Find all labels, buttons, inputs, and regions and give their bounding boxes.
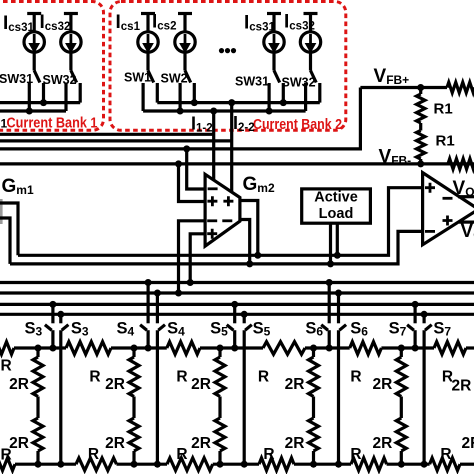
junction column 1 bottom chain: [35, 461, 42, 468]
bank2 bar A (right throws): [157, 101, 319, 104]
junction Gm2 in2 on V_FB- line: [175, 160, 182, 167]
switch SW2: [183, 52, 186, 70]
switch S5 right: [243, 314, 246, 323]
active load box: [302, 189, 371, 223]
junction active load right leg on rail 1: [334, 252, 341, 259]
wire top chain node 4: [305, 346, 350, 349]
wire SW32 (bank2) left throw: [304, 83, 307, 111]
wire SW32 (bank1) left throw: [64, 83, 67, 111]
svg-text:SW1: SW1: [124, 70, 151, 84]
current source Ics31 (bank2): [267, 12, 281, 15]
junction Gm2 in1 on V_FB+ line: [183, 145, 190, 152]
wire bus A: [0, 281, 474, 284]
junction Gm2 out+ on rail 1: [254, 252, 261, 259]
resistor R top chain 4-5: [350, 342, 382, 355]
wire top chain node 1: [14, 346, 66, 349]
wire SW31 (bank1) right throw: [42, 83, 45, 103]
current source Ics32 (bank1): [64, 12, 78, 15]
resistor R (V_FB+ to right edge): [447, 82, 474, 92]
junction bank1 SW31 left on bar B: [26, 108, 33, 115]
switch S4 left: [147, 283, 150, 324]
junction S7 left on top chain: [412, 345, 419, 352]
junction V_FB- / R1: [417, 160, 424, 167]
current source Ics32 (bank2): [304, 12, 318, 15]
svg-text:R: R: [176, 369, 187, 386]
wire V_OUT- output: [459, 221, 474, 224]
junction S7 left on bus: [412, 301, 419, 308]
resistor R (V_FB- to right edge): [448, 159, 474, 169]
switch S5 left: [233, 304, 236, 323]
wire Gm2 input 4 from bus A: [190, 234, 205, 283]
op-amp Gm1 (cut at edge): [0, 199, 3, 224]
junction active load left leg on rail 2: [327, 260, 334, 267]
wire I_2-2 from bank2 bar A down to Gm2 top: [230, 103, 233, 193]
svg-text:SW31: SW31: [235, 75, 269, 89]
wire Gm1 output 1 to rail 1: [0, 203, 18, 255]
resistor 2R column 2 lower: [129, 418, 139, 451]
switch SW32 (bank2): [309, 52, 312, 70]
Gm2 plus out+: [223, 196, 233, 206]
svg-text:SW2: SW2: [161, 71, 188, 85]
svg-text:R1: R1: [436, 133, 455, 150]
svg-text:R: R: [89, 369, 100, 386]
current source Ics2: [178, 12, 192, 15]
op-amp output buffer: [423, 173, 474, 245]
wire SW1 left throw: [142, 83, 145, 111]
wire SW31 (bank2) right throw: [282, 83, 285, 103]
junction S6 left on bus: [326, 279, 333, 286]
resistor 2R column 2 upper: [132, 348, 135, 357]
svg-text:2R: 2R: [285, 376, 305, 393]
wire bottom chain right end: [460, 463, 474, 466]
svg-text:R: R: [350, 369, 361, 386]
switch SW32 (bank1): [69, 52, 72, 70]
switch SW31 (bank2): [272, 52, 275, 70]
wire active load right leg to rail 1: [336, 223, 339, 255]
junction S7 right on bus: [421, 311, 428, 318]
wire bottom chain node 4: [294, 463, 351, 466]
junction column 5 top chain: [398, 345, 405, 352]
wire bus D: [0, 313, 474, 316]
wire bottom chain node 2: [117, 463, 168, 466]
svg-text:R: R: [176, 446, 187, 463]
resistor R bottom chain 2-3: [167, 458, 213, 471]
output amp minus in (bottom): [425, 230, 435, 233]
current bank 1 dashed box: [0, 2, 104, 131]
resistor 2R column 1 lower: [33, 418, 43, 451]
junction S5 left on top chain: [231, 345, 238, 352]
svg-text:R1: R1: [434, 101, 453, 118]
wire bottom chain node 3: [213, 463, 259, 466]
wire SW2 right throw: [193, 83, 196, 103]
Gm2 plus in2: [207, 196, 217, 206]
junction column 5 bottom chain: [398, 461, 405, 468]
wire SW31 (bank2) left throw: [268, 83, 271, 111]
resistor R bottom chain (cut at left edge): [0, 458, 15, 471]
wire bottom chain node 1: [15, 463, 76, 466]
bank2 bar B (left throws): [143, 109, 306, 112]
wire V_FB- line: [0, 162, 474, 165]
Gm2 minus in1: [208, 187, 218, 190]
wire SW31 (bank1) left throw: [28, 83, 31, 111]
svg-text:2R: 2R: [191, 376, 211, 393]
output amp plus in (top): [425, 183, 435, 193]
junction column 2 top chain: [131, 345, 138, 352]
current bank 2 dashed box: [110, 2, 346, 131]
current source Ics1: [141, 12, 155, 15]
wire SW32 (bank2) right throw: [318, 83, 321, 103]
svg-text:R: R: [258, 369, 269, 386]
resistor 2R column 3 upper: [218, 348, 221, 357]
junction bank2 SW31 left on bar B: [266, 108, 273, 115]
switch S6 left: [328, 283, 331, 324]
svg-text:VOUT-: VOUT-: [461, 221, 474, 242]
wire Gm2 input 3 from bus B: [179, 221, 206, 293]
resistor 2R column 3 lower: [215, 418, 225, 451]
junction SW2 left on bar B: [177, 108, 184, 115]
resistor R top chain 5-edge: [434, 342, 466, 355]
switch S7 left: [414, 304, 417, 323]
switch S4 right: [156, 293, 159, 323]
junction V_FB+ / R1: [417, 84, 424, 91]
junction S4 left on bus: [145, 279, 152, 286]
resistor R top chain 3-4: [263, 342, 305, 355]
wire Gm2 input 1 from V_FB+ line: [187, 149, 205, 189]
wire active load left leg to rail 2: [329, 223, 332, 264]
junction I_2-2 on bar A: [228, 99, 235, 106]
junction column 1 top chain: [35, 345, 42, 352]
op-amp Gm2: [205, 174, 240, 246]
wire Gm1 output 2 to rail 2: [0, 218, 10, 264]
switch S7 right: [423, 314, 426, 323]
junction column 3 top chain: [217, 345, 224, 352]
junction S4 right on bus: [154, 290, 161, 297]
Gm2 minus in3: [207, 219, 217, 222]
junction S3 left on bus: [49, 301, 56, 308]
junction column 3 bottom chain: [217, 461, 224, 468]
junction bank2 SW31 right on bar A: [280, 99, 287, 106]
junction S4 left on top chain: [145, 345, 152, 352]
wire SW32 (bank1) right throw: [79, 83, 82, 103]
resistor 2R column 4 lower: [309, 418, 319, 451]
bank1 bar B (left throws): [0, 109, 66, 112]
svg-text:2R: 2R: [9, 376, 29, 393]
wire SW2 left throw: [179, 83, 182, 111]
junction S3 right on bottom chain: [57, 461, 64, 468]
svg-text:Current Bank 1: Current Bank 1: [7, 116, 98, 132]
wire Gm2 output- to rail 2: [240, 220, 250, 264]
resistor R bottom chain 3-4: [259, 458, 294, 471]
junction S3 left on top chain: [49, 345, 56, 352]
svg-text:R: R: [88, 446, 99, 463]
wire bank1 rail to I_2-2 node: [0, 139, 232, 142]
switch SW31 (bank1): [33, 52, 36, 70]
svg-text:Active: Active: [314, 190, 358, 206]
junction S6 left on top chain: [326, 345, 333, 352]
svg-text:Load: Load: [319, 206, 354, 222]
wire SW1 right throw: [156, 83, 159, 103]
resistor R1 (lower): [417, 131, 425, 160]
svg-text:1: 1: [1, 117, 8, 131]
svg-text:R: R: [350, 446, 361, 463]
svg-text:2R: 2R: [462, 435, 474, 452]
junction column 4 bottom chain: [310, 461, 317, 468]
junction S5 right on bus: [241, 311, 248, 318]
wire V_FB+ node line: [360, 86, 447, 89]
wire top chain right end: [466, 346, 474, 349]
junction S6 right on bottom chain: [335, 461, 342, 468]
resistor 2R column 5 upper: [400, 348, 403, 357]
wire rail 1 (to output amp +): [18, 188, 423, 256]
svg-text:2R: 2R: [105, 435, 125, 452]
junction column 2 bottom chain: [131, 461, 138, 468]
junction S4 right on bottom chain: [154, 461, 161, 468]
wire bus C: [0, 303, 474, 306]
wire Gm2 input 2 from V_FB- line: [179, 164, 206, 202]
svg-text:R: R: [263, 446, 274, 463]
svg-text:Current Bank 2: Current Bank 2: [253, 117, 342, 133]
svg-text:SW31: SW31: [0, 72, 33, 86]
wire bus B: [0, 291, 474, 294]
switch S3 right: [59, 314, 62, 323]
wire Gm2 output+ to rail 1: [240, 201, 258, 256]
svg-text:2R: 2R: [285, 435, 305, 452]
resistor R1 (upper): [419, 88, 422, 95]
svg-text:2R: 2R: [372, 376, 392, 393]
wire top chain node 2: [111, 346, 167, 349]
resistor R bottom chain 4-5: [351, 458, 387, 471]
Gm2 plus in4: [207, 229, 217, 239]
wire rail 2 (to output amp -): [10, 231, 423, 264]
junction S7 right on bottom chain: [421, 461, 428, 468]
junction S5 right on bottom chain: [241, 461, 248, 468]
switch S3 left: [51, 304, 54, 323]
wire I_1-2 from bank2 bar B down to Gm2 top: [212, 111, 215, 180]
output amp plus (inner bottom): [443, 216, 453, 226]
svg-text:2R: 2R: [9, 435, 29, 452]
junction Gm2 in3 on bus B: [175, 290, 182, 297]
resistor 2R column 4 upper: [312, 348, 315, 357]
switch S6 right: [337, 293, 340, 323]
svg-text:SW32: SW32: [43, 73, 77, 87]
junction Gm2 out- on rail 2: [246, 260, 253, 267]
junction bank1 SW31 right on bar A: [40, 99, 47, 106]
resistor R top chain 1-2: [66, 342, 111, 355]
junction S5 left on bus: [231, 301, 238, 308]
switch SW1: [146, 52, 149, 70]
junction Gm2 in4 on bus A: [187, 279, 194, 286]
resistor 2R column 1 upper: [36, 348, 39, 357]
svg-text:R: R: [440, 446, 451, 463]
svg-text:2R: 2R: [191, 435, 211, 452]
svg-text:2R: 2R: [105, 376, 125, 393]
wire V_FB+ return line: [0, 88, 360, 149]
wire top chain node 5: [381, 346, 434, 349]
resistor 2R column 5 lower: [396, 418, 406, 451]
current source Ics31 (bank1): [27, 12, 41, 15]
junction column 4 top chain: [310, 345, 317, 352]
Gm2 minus out-: [222, 219, 232, 222]
junction S3 right on bus: [57, 311, 64, 318]
output amp minus (inner top): [443, 197, 453, 200]
svg-text:2R: 2R: [372, 435, 392, 452]
junction SW2 right on bar A: [191, 99, 198, 106]
wire bottom chain node 5: [387, 463, 430, 466]
resistor R top chain (cut at left edge): [0, 342, 14, 355]
resistor R top chain 2-3: [167, 342, 200, 355]
wire top chain node 3: [200, 346, 263, 349]
svg-text:R: R: [1, 358, 12, 375]
junction I_1-2 on bar B: [210, 108, 217, 115]
svg-text:SW32: SW32: [282, 76, 316, 90]
resistor R bottom chain 5-edge: [430, 458, 460, 471]
resistor R bottom chain 1-2: [76, 458, 117, 471]
bank1 bar A (right throws): [0, 101, 80, 104]
wire bank1 rail to I_1-2 node: [0, 133, 214, 136]
ellipsis between source groups: [219, 48, 224, 53]
wire V_OUT+ output: [458, 195, 474, 198]
svg-text:2R: 2R: [452, 378, 472, 395]
junction S6 right on bus: [335, 290, 342, 297]
